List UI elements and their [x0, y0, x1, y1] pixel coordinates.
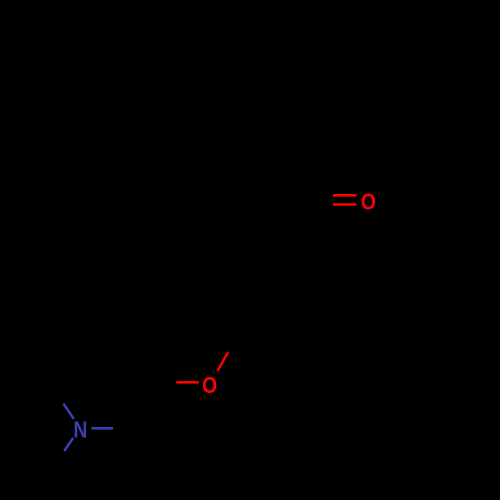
svg-text:O: O — [202, 372, 217, 398]
svg-text:O: O — [361, 189, 376, 215]
svg-text:N: N — [73, 417, 87, 443]
